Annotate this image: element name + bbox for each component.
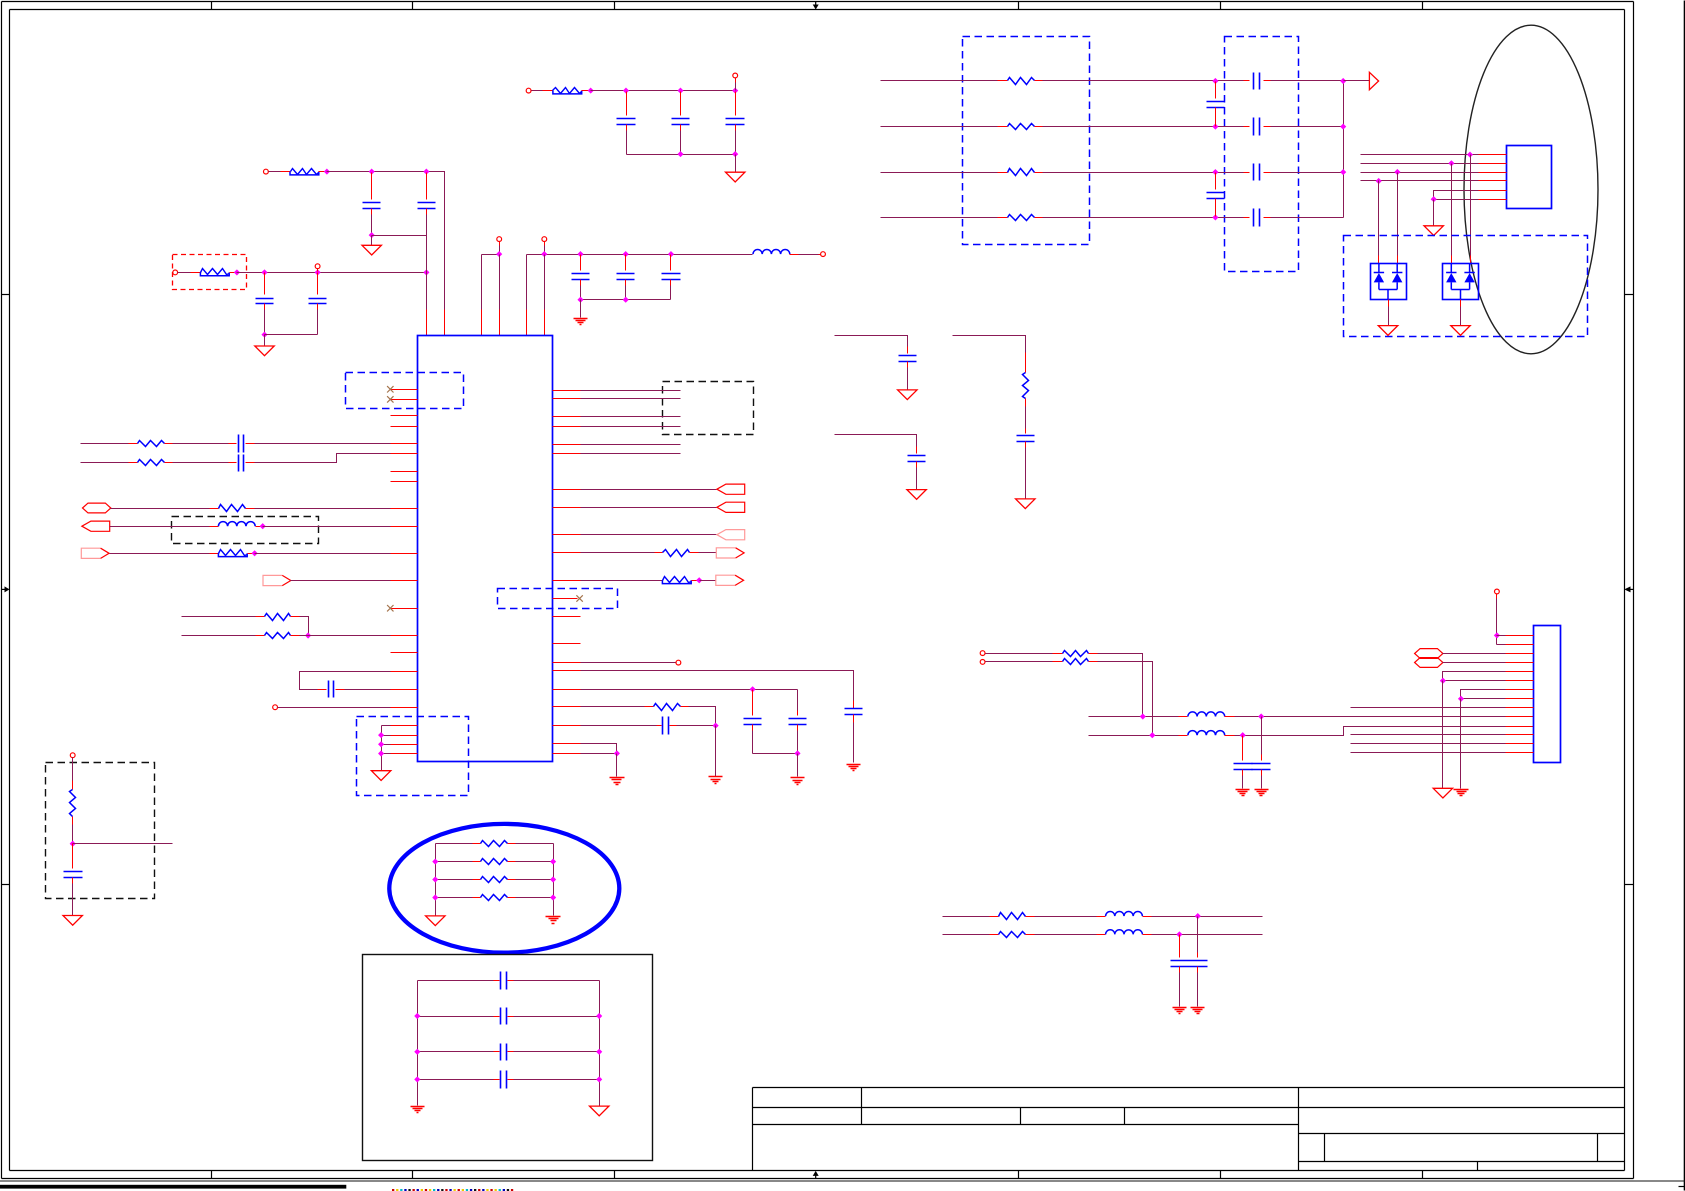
diode array D1 ground pin	[1388, 300, 1390, 307]
pin stub of U1	[553, 453, 581, 455]
pin stub of J1	[1506, 743, 1534, 745]
wire	[1043, 126, 1244, 128]
capacitor C24 lead	[1244, 126, 1250, 128]
junction	[750, 687, 755, 692]
wire	[345, 689, 391, 691]
border tick	[1625, 294, 1634, 296]
capacitor C9 bottom lead	[625, 280, 627, 286]
pin stub NC	[391, 389, 418, 391]
wire	[986, 653, 1053, 655]
inductor L3	[1188, 712, 1225, 717]
wire	[278, 707, 391, 709]
resistor R1	[290, 169, 319, 175]
border tick	[614, 2, 616, 10]
wire	[1235, 716, 1506, 718]
ground stem	[735, 155, 737, 173]
pin stub of U2	[1479, 163, 1507, 165]
wire	[581, 706, 645, 708]
border tick	[412, 2, 414, 10]
page outer border bottom	[2, 1178, 1634, 1180]
wire	[625, 286, 627, 300]
wire	[591, 90, 736, 92]
wire	[1098, 654, 1143, 717]
resistor R23	[481, 859, 508, 865]
pin stub of U1	[391, 580, 418, 582]
pin lead	[191, 272, 201, 274]
resistor R26	[70, 790, 76, 817]
capacitor lead	[494, 1051, 500, 1053]
junction	[424, 270, 429, 275]
wire	[1351, 752, 1506, 754]
ground stem	[1460, 699, 1462, 789]
border center arrow top	[813, 2, 819, 10]
junction	[379, 733, 384, 738]
pin stub of U2	[1479, 199, 1507, 201]
wire	[1496, 599, 1498, 645]
connector J1	[1534, 626, 1561, 763]
wire	[1152, 916, 1263, 918]
capacitor C35	[64, 872, 83, 878]
capacitor C6 bottom lead	[680, 125, 682, 131]
capacitor C4	[309, 299, 327, 304]
ground	[1451, 326, 1470, 336]
resistor R26 bottom lead	[72, 817, 74, 825]
inductor lead	[1097, 916, 1106, 918]
resistor R4 lead	[165, 443, 173, 445]
resistor R8	[265, 614, 291, 621]
output port connector	[263, 575, 291, 585]
pin stub of U1	[526, 310, 528, 336]
capacitor C13 lead	[318, 689, 327, 691]
capacitor C20	[1017, 436, 1035, 442]
wire	[436, 897, 473, 899]
wire	[853, 723, 855, 763]
resistor R10	[663, 550, 690, 557]
capacitor C11 lead	[246, 443, 255, 445]
pin stub	[391, 652, 418, 654]
wire	[265, 334, 318, 336]
border tick	[1018, 1171, 1020, 1179]
wire	[300, 617, 309, 636]
component group box	[363, 955, 653, 1161]
title block divider	[1020, 1108, 1022, 1125]
wire	[1443, 653, 1506, 655]
wire	[1261, 776, 1263, 789]
resistor lead	[508, 861, 516, 863]
resistor R16 lead	[1035, 172, 1043, 174]
wire	[300, 672, 391, 690]
junction	[1494, 633, 1499, 638]
capacitor C2 top lead	[426, 173, 428, 200]
junction	[795, 751, 800, 756]
resistor R4	[138, 441, 165, 447]
wire	[581, 662, 676, 664]
capacitor C26 lead	[1264, 217, 1271, 219]
resistor lead	[473, 861, 481, 863]
input port connector	[82, 521, 110, 531]
pin stub of U1	[553, 489, 581, 491]
left bus	[435, 844, 437, 916]
capacitor C20 bottom lead	[1025, 442, 1027, 448]
wire	[382, 744, 391, 746]
wire	[1443, 662, 1506, 664]
border tick	[211, 2, 213, 10]
diode array D2 internals	[1446, 263, 1475, 299]
capacitor C35 bottom lead	[72, 878, 74, 884]
page inner border right	[1624, 10, 1626, 1171]
capacitor C21	[1207, 102, 1225, 108]
wire	[72, 758, 74, 781]
wire	[689, 707, 716, 726]
wire	[581, 453, 681, 455]
terminal stub	[1496, 594, 1498, 599]
wire	[1025, 407, 1027, 429]
capacitor C21 top lead	[1215, 82, 1217, 99]
resistor R25	[481, 895, 508, 901]
border tick	[1422, 1171, 1424, 1179]
capacitor C17 lead	[657, 725, 662, 727]
junction	[578, 297, 583, 302]
capacitor C1 top lead	[371, 173, 373, 200]
capacitor C28 bottom lead	[1261, 770, 1263, 776]
pin stub of U1	[553, 416, 581, 418]
terminal stub	[317, 269, 319, 272]
wire	[526, 255, 528, 310]
terminal	[315, 264, 320, 269]
capacitor C12 lead	[229, 462, 237, 464]
page outer border right	[1633, 2, 1635, 1179]
wire	[581, 426, 681, 428]
terminal	[173, 270, 178, 275]
wire	[581, 534, 717, 536]
junction	[1150, 733, 1155, 738]
wire	[532, 90, 543, 92]
junction	[597, 1049, 602, 1054]
resistor R14 lead	[998, 80, 1008, 82]
input port connector	[717, 502, 745, 512]
resistor R15	[1008, 124, 1035, 130]
border center arrow left	[2, 586, 10, 592]
junction	[262, 332, 267, 337]
capacitor C6	[672, 119, 690, 125]
ground (earth)	[791, 778, 805, 785]
title block row line	[753, 1107, 1625, 1109]
capacitor C29 bottom lead	[1179, 967, 1181, 973]
ground stem	[1388, 307, 1390, 326]
capacitor C9 top lead	[625, 255, 627, 271]
pin stub of J1	[1506, 716, 1534, 718]
pin stub	[391, 481, 418, 483]
resistor lead	[508, 879, 516, 881]
pin lead	[819, 254, 821, 256]
junction	[497, 252, 502, 257]
capacitor C24	[1254, 118, 1260, 136]
junction	[260, 524, 265, 529]
capacitor C21 bottom lead	[1215, 108, 1217, 127]
pin stub of U1	[553, 743, 581, 745]
ground	[898, 390, 917, 400]
pin stub of U1	[553, 426, 581, 428]
ground	[255, 346, 274, 356]
diode D1 pin lead	[1397, 256, 1399, 264]
wire	[581, 390, 681, 392]
pin stub of J1	[1506, 671, 1534, 673]
wire	[699, 552, 717, 554]
junction	[697, 578, 702, 583]
capacitor C5 top lead	[626, 92, 628, 116]
wire	[581, 299, 671, 301]
wire	[1443, 672, 1506, 681]
wire	[581, 489, 717, 491]
resistor lead	[473, 879, 481, 881]
capacitor C1	[363, 203, 381, 209]
junction	[1341, 170, 1346, 175]
ground (earth)	[574, 319, 588, 325]
pin stub of U2	[1479, 190, 1507, 192]
ground (earth)	[610, 778, 625, 785]
capacitor C15	[744, 719, 762, 725]
pin stub of U1	[553, 662, 581, 664]
junction	[306, 633, 311, 638]
resistor R15 lead	[998, 126, 1008, 128]
off-page connector	[1415, 649, 1443, 659]
junction	[1213, 170, 1218, 175]
capacitor C7 top lead	[735, 92, 737, 116]
capacitor C23 lead	[1244, 80, 1250, 82]
blue dashed box (NC pin right)	[498, 589, 618, 609]
inductor lead	[1097, 934, 1106, 936]
left bus	[417, 981, 419, 1106]
capacitor C13 lead	[336, 689, 345, 691]
pin stub of U1	[391, 753, 418, 755]
junction	[369, 169, 374, 174]
resistor R6 lead	[246, 508, 255, 510]
wire	[173, 443, 229, 445]
output port connector	[716, 548, 744, 558]
capacitor C9	[617, 274, 635, 280]
off-page connector	[83, 503, 111, 513]
wire	[1242, 776, 1244, 789]
ground stem	[1460, 307, 1462, 326]
pin stub of U2	[1479, 154, 1507, 156]
pin stub of J1	[1506, 734, 1534, 736]
wire	[291, 580, 391, 582]
ground	[726, 172, 745, 182]
pin stub of U1	[391, 635, 418, 637]
resistor R19 lead	[1089, 661, 1098, 663]
next page text fragment	[392, 1189, 513, 1191]
page outer border top	[2, 1, 1634, 3]
page inner border left	[9, 10, 11, 1171]
pin stub NC	[391, 399, 418, 401]
border tick	[1220, 1171, 1222, 1179]
pin stub of U1	[391, 526, 418, 528]
wire	[544, 255, 546, 310]
pin stub of U1	[391, 744, 418, 746]
resistor lead	[508, 843, 516, 845]
resistor R8 lead	[256, 616, 265, 618]
border tick	[1220, 2, 1222, 10]
title block row line right	[1299, 1161, 1625, 1163]
resistor lead	[990, 934, 999, 936]
signal arrow	[1369, 72, 1378, 89]
wire	[581, 507, 717, 509]
wire	[943, 916, 990, 918]
junction	[433, 895, 438, 900]
pin stub NC	[391, 608, 418, 610]
terminal stub	[544, 242, 546, 246]
pin stub of J1	[1506, 680, 1534, 682]
junction	[262, 270, 267, 275]
capacitor C28	[1252, 764, 1271, 770]
capacitor C6 top lead	[680, 92, 682, 116]
capacitor C24 lead	[1264, 126, 1271, 128]
wire	[514, 980, 600, 982]
capacitor C25	[1254, 164, 1260, 181]
no-connect X	[576, 595, 582, 601]
capacitor C29 top lead	[1179, 935, 1181, 958]
resistor R17	[1008, 215, 1035, 221]
wire	[581, 689, 798, 691]
wire	[499, 246, 501, 255]
wire	[626, 131, 628, 155]
wire	[182, 616, 256, 618]
wire	[418, 1016, 494, 1018]
wire	[372, 235, 427, 237]
capacitor lead	[508, 980, 514, 982]
resistor R10 lead	[655, 552, 663, 554]
ground	[362, 245, 381, 255]
wire	[418, 980, 494, 982]
capacitor C15 bottom lead	[752, 725, 754, 731]
diode array D1	[1371, 264, 1407, 300]
resistor R12 lead	[681, 706, 689, 708]
pin stub of U1	[553, 390, 581, 392]
resistor R20	[999, 913, 1026, 920]
junction	[1213, 79, 1218, 84]
junction	[1213, 215, 1218, 220]
black dashed box (bus group)	[663, 382, 754, 435]
junction	[1213, 124, 1218, 129]
wire	[255, 454, 391, 463]
capacitor C35 top lead	[72, 844, 74, 869]
red dashed highlight box	[173, 255, 247, 290]
junction	[669, 252, 674, 257]
inductor L6	[1106, 930, 1143, 935]
black dashed box (inductor row)	[172, 517, 319, 544]
capacitor C25 lead	[1244, 172, 1250, 174]
wire	[418, 1051, 494, 1053]
capacitor C18 bottom lead	[907, 362, 909, 368]
wire	[436, 843, 473, 845]
junction	[324, 169, 329, 174]
terminal	[497, 237, 502, 242]
ground (earth)	[411, 1107, 425, 1113]
capacitor C22 top lead	[1215, 173, 1217, 190]
ground	[1424, 226, 1443, 236]
capacitor C1 bottom lead	[371, 209, 373, 215]
wire	[371, 215, 373, 236]
blue dashed box (ESD diodes)	[1344, 236, 1588, 337]
wire	[916, 468, 918, 490]
ground	[1016, 499, 1035, 509]
junction	[1240, 733, 1245, 738]
title block row line left	[753, 1124, 1299, 1126]
border tick	[2, 884, 10, 886]
black ellipse highlight	[1464, 25, 1598, 354]
wire	[1351, 743, 1506, 745]
ground stem	[264, 335, 266, 347]
pin stub of U1	[391, 707, 418, 709]
ground	[426, 916, 445, 926]
wire	[382, 735, 391, 737]
wire	[436, 879, 473, 881]
resistor R18 lead	[1089, 653, 1098, 655]
inductor L3 lead	[1225, 716, 1235, 718]
wire	[255, 508, 391, 510]
junction	[623, 252, 628, 257]
diode array D1 internals	[1374, 263, 1403, 299]
pin stub	[391, 415, 418, 417]
blue ellipse highlight	[389, 824, 619, 953]
pin lead	[790, 254, 799, 256]
wire	[1197, 973, 1199, 1007]
pin stub of J1	[1506, 689, 1534, 691]
wire	[1098, 662, 1153, 736]
capacitor C14 bottom lead	[853, 715, 855, 723]
wire	[72, 825, 74, 844]
capacitor C16 bottom lead	[797, 725, 799, 731]
wire	[1461, 698, 1506, 700]
wire	[1261, 717, 1263, 755]
resistor R7 lead	[210, 553, 219, 555]
ground stem	[797, 754, 799, 777]
terminal	[1495, 589, 1500, 594]
wire	[753, 753, 798, 755]
ground	[1378, 326, 1398, 336]
junction	[597, 1014, 602, 1019]
capacitor C22 bottom lead	[1215, 199, 1217, 217]
border tick	[1018, 2, 1020, 10]
pin stub of U1	[391, 735, 418, 737]
wire	[264, 310, 266, 335]
wire	[581, 671, 854, 701]
junction	[1449, 161, 1454, 166]
bus wire	[1361, 163, 1479, 165]
pin stub of U1	[391, 453, 418, 455]
resistor R6 lead	[210, 508, 219, 510]
junction	[1259, 714, 1264, 719]
wire	[317, 310, 319, 335]
junction	[624, 88, 629, 93]
capacitor C12	[239, 455, 244, 472]
title block row line right	[1299, 1133, 1625, 1135]
ground	[907, 490, 926, 500]
wire	[1344, 80, 1370, 82]
pin stub of J1	[1506, 707, 1534, 709]
pin lead	[281, 171, 291, 173]
wire	[514, 1051, 600, 1053]
resistor lead	[990, 916, 999, 918]
wire	[426, 215, 428, 236]
capacitor C3	[256, 299, 274, 304]
adjacent page tick	[1679, 1186, 1685, 1188]
pin stub of U1	[553, 552, 581, 554]
capacitor C4 top lead	[317, 273, 319, 295]
ground (earth)	[1236, 790, 1250, 796]
resistor R11	[662, 577, 691, 584]
junction	[433, 877, 438, 882]
